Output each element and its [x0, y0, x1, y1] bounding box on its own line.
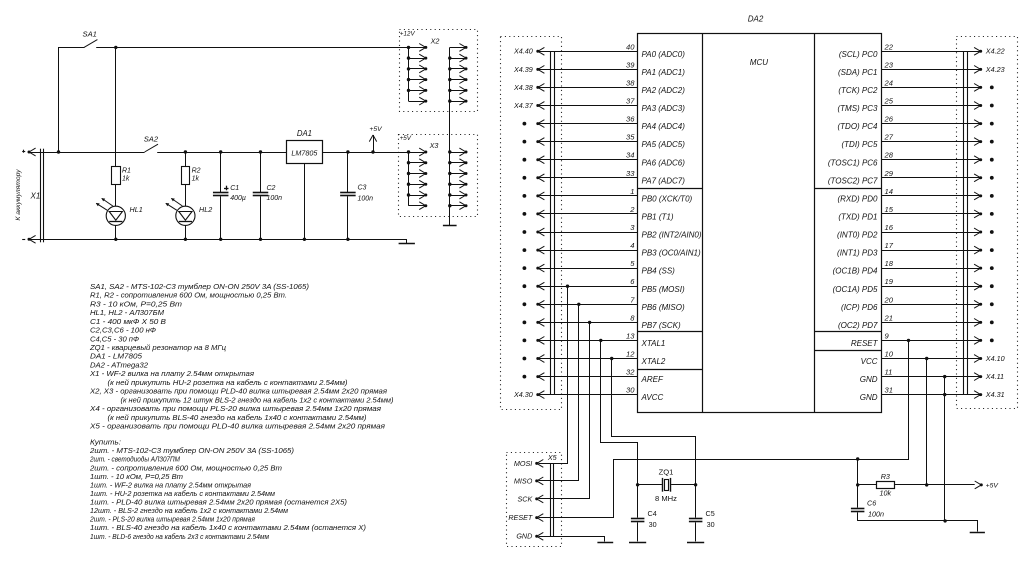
pin MOSI of X5 — [514, 459, 543, 468]
pin 37 PA3 (ADC3) wire to X4 — [536, 97, 685, 114]
pin X2b.6 — [450, 97, 468, 105]
svg-text:33: 33 — [626, 169, 635, 178]
pin RESET of X5 — [508, 513, 543, 522]
pin X3b.4 — [450, 180, 468, 188]
pin 9 RESET wire to X4 — [851, 331, 982, 348]
pin 5 PB4 (SS) wire to X4 — [536, 259, 675, 276]
junction X3a column row 2 — [407, 161, 410, 164]
pin 15 (TXD) PD1 wire to X4 — [838, 205, 982, 222]
junction bullet X4 right row 10 — [990, 230, 994, 234]
pin 8 PB7 (SCK) wire to X4 — [536, 313, 681, 330]
junction R3 on RESET wire — [856, 457, 859, 460]
pin X2b.3 — [450, 65, 468, 73]
svg-text:32: 32 — [626, 368, 635, 377]
svg-text:RESET: RESET — [508, 513, 533, 522]
svg-text:PA0 (ADC0): PA0 (ADC0) — [642, 50, 686, 59]
pin X3a.5 — [409, 191, 428, 199]
power symbol +5V right — [975, 481, 1000, 489]
svg-text:R3: R3 — [881, 472, 890, 481]
svg-text:400µ: 400µ — [230, 195, 246, 202]
svg-text:PB1 (T1): PB1 (T1) — [642, 213, 674, 222]
svg-text:HL1, HL2 - АЛ307БМ: HL1, HL2 - АЛ307БМ — [90, 308, 164, 317]
svg-text:R1: R1 — [122, 167, 131, 174]
svg-text:XTAL1: XTAL1 — [641, 339, 666, 348]
pin X3a.6 — [409, 202, 428, 210]
svg-text:PA1 (ADC1): PA1 (ADC1) — [642, 68, 686, 77]
wire DA1 ground pin — [304, 164, 306, 240]
svg-text:35: 35 — [626, 133, 635, 142]
wire SCK net — [539, 323, 590, 499]
MCU DA2 ATmega32 body — [637, 33, 882, 412]
pin X3b.2 — [450, 159, 468, 167]
junction PB6/MISO — [577, 303, 580, 306]
wire RESET net to X5 — [539, 341, 909, 518]
pin 4 PB3 (OC0/AIN1) wire to X4 — [536, 241, 701, 258]
svg-text:20: 20 — [884, 295, 894, 304]
svg-text:GND: GND — [516, 532, 532, 541]
svg-text:HL2: HL2 — [199, 205, 212, 214]
pin 31 GND wire to X4 — [860, 386, 982, 403]
pin 27 (TDI) PC5 wire to X4 — [842, 133, 983, 150]
pin 7 PB6 (MISO) wire to X4 — [536, 295, 685, 312]
svg-text:100n: 100n — [267, 195, 283, 202]
ground symbol at X5 — [597, 542, 613, 544]
pin 10 VCC wire to X4 — [861, 350, 983, 367]
svg-text:LM7805: LM7805 — [291, 148, 318, 157]
svg-text:PA3 (ADC3): PA3 (ADC3) — [642, 104, 686, 113]
svg-text:X1: X1 — [30, 191, 41, 200]
text block: shopping list — [89, 438, 366, 541]
svg-text:X3: X3 — [429, 141, 439, 150]
junction bullet X4 left row 7 — [523, 176, 527, 180]
junction bullet X4 right row 4 — [990, 122, 994, 126]
wire X3a column — [408, 152, 410, 206]
svg-text:C1 - 400 мкФ Х 50 В: C1 - 400 мкФ Х 50 В — [90, 317, 166, 326]
pin 36 PA4 (ADC4) wire to X4 — [536, 115, 685, 132]
svg-text:30: 30 — [707, 520, 715, 529]
LED HL2 — [165, 198, 212, 225]
pin 26 (TDO) PC4 wire to X4 — [838, 115, 983, 132]
svg-text:AREF: AREF — [641, 375, 664, 384]
svg-text:8 MHz: 8 MHz — [655, 494, 677, 503]
junction GND pin 11 net — [943, 375, 946, 378]
bus lines X4 left — [551, 51, 555, 394]
svg-text:X4.38: X4.38 — [513, 83, 533, 92]
svg-text:1k: 1k — [122, 176, 130, 183]
svg-text:X4.11: X4.11 — [985, 372, 1004, 381]
pin 14 (RXD) PD0 wire to X4 — [837, 187, 982, 204]
wire MISO net — [539, 305, 579, 481]
wire SA1 to X2 (+12V) — [96, 47, 408, 49]
wire XTAL2 to crystal — [612, 359, 696, 485]
svg-text:C5: C5 — [706, 509, 715, 518]
svg-text:17: 17 — [885, 241, 894, 250]
svg-text:1шт. - BLD-6 гнездо на кабель: 1шт. - BLD-6 гнездо на кабель 2х3 с конт… — [90, 532, 269, 541]
junction bullet X4 left row 13 — [523, 284, 527, 288]
junction X2a column row 1 — [407, 46, 410, 49]
junction bullet X4 right row 12 — [990, 266, 994, 270]
svg-text:SA2: SA2 — [144, 135, 159, 144]
wire R1 branch — [115, 47, 117, 239]
svg-text:+5V: +5V — [400, 135, 412, 142]
pin 35 PA5 (ADC5) wire to X4 — [536, 133, 685, 150]
junction X2b column row 6 — [448, 99, 451, 102]
pin GND of X5 — [516, 532, 543, 541]
junction on + rail at SA1 branch — [57, 150, 60, 153]
junction C2 on + rail — [259, 150, 262, 153]
junction GND on ground wire — [943, 519, 946, 522]
junction X2b column row 5 — [448, 89, 451, 92]
pin 17 (INT1) PD3 wire to X4 — [837, 241, 982, 258]
svg-text:18: 18 — [885, 259, 894, 268]
junction X3a column row 3 — [407, 172, 410, 175]
junction X3a column row 1 — [407, 150, 410, 153]
junction bullet X4 left row 8 — [523, 194, 527, 198]
svg-text:X2, X3 - организовать при помо: X2, X3 - организовать при помощи PLD-40 … — [89, 387, 387, 396]
junction RESET net — [907, 339, 910, 342]
ground symbol under C5 — [687, 542, 704, 544]
junction bullet X4 left row 18 — [523, 375, 527, 379]
bus lines X5 — [551, 463, 554, 536]
pin 20 (ICP) PD6 wire to X4 — [841, 295, 982, 312]
svg-text:SA1: SA1 — [83, 30, 97, 39]
pin 30 AVCC wire to X4 — [536, 386, 663, 403]
pin 34 PA6 (ADC6) wire to X4 — [536, 151, 685, 168]
svg-text:X5: X5 — [547, 453, 558, 462]
pin 13 XTAL1 wire to X4 — [536, 331, 665, 348]
svg-text:(к ней прикупить HU-2 розетка: (к ней прикупить HU-2 розетка на кабель … — [108, 378, 348, 387]
pin 12 XTAL2 wire to X4 — [536, 350, 666, 367]
svg-text:SCK: SCK — [518, 494, 534, 503]
svg-text:R1, R2 - сопротивления 600 Ом,: R1, R2 - сопротивления 600 Ом, мощностью… — [90, 291, 287, 300]
pin X3a.1 — [409, 148, 428, 156]
svg-text:100n: 100n — [868, 509, 884, 518]
pin 22 (SCL) PC0 wire to X4 — [839, 42, 982, 59]
svg-text:PB3 (OC0/AIN1): PB3 (OC0/AIN1) — [642, 249, 701, 258]
svg-text:1k: 1k — [192, 176, 200, 183]
svg-text:10k: 10k — [880, 488, 892, 497]
bus lines X4 right — [964, 51, 968, 394]
svg-text:(OC1B) PD4: (OC1B) PD4 — [833, 267, 878, 276]
svg-text:X4.30: X4.30 — [513, 390, 533, 399]
junction X3b column row 5 — [448, 193, 451, 196]
junction bullet X4 left row 9 — [523, 212, 527, 216]
svg-text:C2: C2 — [267, 185, 276, 192]
pin SCK of X5 — [518, 494, 544, 503]
svg-text:(TDI) PC5: (TDI) PC5 — [842, 140, 879, 149]
junction R1 branch on +12V wire — [114, 46, 117, 49]
svg-text:PA6 (ADC6): PA6 (ADC6) — [642, 158, 686, 167]
pin 21 (OC2) PD7 wire to X4 — [838, 313, 982, 330]
pin 28 (TOSC1) PC6 wire to X4 — [828, 151, 982, 168]
svg-text:DA2: DA2 — [748, 15, 764, 24]
wire MOSI net — [539, 287, 568, 464]
svg-text:25: 25 — [884, 97, 894, 106]
svg-text:(TDO) PC4: (TDO) PC4 — [838, 122, 879, 131]
wire +12V rail from X1 to DA1 — [44, 152, 145, 154]
pin X3b.5 — [450, 191, 468, 199]
resistor R3, 10k — [858, 472, 895, 497]
junction bullet X4 right row 5 — [990, 140, 994, 144]
svg-text:X5 - организовать при помощи P: X5 - организовать при помощи PLD-40 вилк… — [89, 422, 385, 431]
junction R3 left — [856, 483, 859, 486]
svg-text:29: 29 — [884, 169, 894, 178]
wire +5V rail from DA1 to X3 — [322, 152, 408, 154]
switch SA2 — [144, 135, 159, 152]
junction bullet X4 right row 9 — [990, 212, 994, 216]
junction X2b column row 2 — [448, 56, 451, 59]
svg-text:+5V: +5V — [986, 482, 1000, 489]
label "К аккумулятору" — [15, 169, 22, 221]
svg-text:+5V: +5V — [369, 126, 383, 133]
svg-text:ZQ1 - кварцевый резонатор на 8: ZQ1 - кварцевый резонатор на 8 МГц — [89, 343, 226, 352]
svg-text:C3: C3 — [358, 184, 367, 191]
junction DA1 gnd on - rail — [303, 238, 306, 241]
pin X3a.3 — [409, 170, 428, 178]
pin X3a.2 — [409, 159, 428, 167]
svg-text:DA1: DA1 — [297, 129, 312, 138]
pin 6 PB5 (MOSI) wire to X4 — [536, 277, 685, 294]
junction C3 on +5V rail — [346, 150, 349, 153]
ground symbol bottom right — [970, 532, 985, 534]
pin X2a.6 — [409, 97, 428, 105]
pin 25 (TMS) PC3 wire to X4 — [838, 97, 983, 114]
pin MISO of X5 — [514, 476, 543, 485]
svg-text:37: 37 — [626, 97, 635, 106]
junction bullet X4 left row 14 — [523, 302, 527, 306]
ground symbol under C4 — [629, 542, 646, 544]
junction R1/HL1 on - rail — [114, 238, 117, 241]
svg-text:MCU: MCU — [750, 58, 768, 67]
junction bullet X4 right row 16 — [990, 339, 994, 343]
svg-text:X4.31: X4.31 — [985, 390, 1005, 399]
pin 1 PB0 (XCK/T0) wire to X4 — [536, 187, 692, 204]
svg-text:PB6 (MISO): PB6 (MISO) — [642, 303, 685, 312]
svg-text:X4 - организовать при помощи P: X4 - организовать при помощи PLS-20 вилк… — [89, 404, 381, 413]
junction C2 on - rail — [259, 238, 262, 241]
junction PB5/MOSI — [566, 285, 569, 288]
junction X3a column row 4 — [407, 183, 410, 186]
ground symbol of - rail — [399, 243, 415, 245]
junction X2a column row 3 — [407, 67, 410, 70]
svg-text:30: 30 — [626, 386, 635, 395]
svg-text:PA5 (ADC5): PA5 (ADC5) — [642, 140, 686, 149]
switch SA1 — [83, 30, 98, 48]
svg-text:23: 23 — [884, 60, 894, 69]
pin 16 (INT0) PD2 wire to X4 — [837, 223, 982, 240]
svg-text:(SDA) PC1: (SDA) PC1 — [838, 68, 878, 77]
pin X3b.1 — [450, 148, 468, 156]
capacitor C4, 30 — [631, 485, 657, 542]
svg-text:36: 36 — [626, 115, 635, 124]
junction bullet X4 right row 15 — [990, 321, 994, 325]
svg-text:PB4 (SS): PB4 (SS) — [642, 267, 676, 276]
svg-text:(INT0) PD2: (INT0) PD2 — [837, 231, 878, 240]
connector X3 (dashed box) — [399, 135, 478, 217]
svg-text:(INT1) PD3: (INT1) PD3 — [837, 249, 878, 258]
svg-text:40: 40 — [626, 42, 635, 51]
svg-text:X4.22: X4.22 — [985, 47, 1005, 56]
pin X3b.6 — [450, 202, 468, 210]
svg-text:C2,C3,C6 - 100 нФ: C2,C3,C6 - 100 нФ — [90, 326, 156, 335]
svg-text:HL1: HL1 — [130, 205, 143, 214]
svg-text:+12V: +12V — [400, 30, 416, 37]
svg-text:GND: GND — [860, 393, 878, 402]
wire GND net down — [944, 377, 946, 521]
svg-text:VCC: VCC — [861, 357, 878, 366]
junction bullet X4 left row 5 — [523, 140, 527, 144]
svg-text:15: 15 — [885, 205, 894, 214]
svg-text:12: 12 — [626, 350, 635, 359]
svg-text:R3 - 10 кОм, P=0,25 Вт: R3 - 10 кОм, P=0,25 Вт — [90, 299, 182, 308]
junction C1 on - rail — [219, 238, 222, 241]
junction bullet X4 right row 7 — [990, 176, 994, 180]
svg-text:PA7 (ADC7): PA7 (ADC7) — [642, 176, 686, 185]
junction C3 on - rail — [346, 238, 349, 241]
svg-text:X4.39: X4.39 — [513, 65, 533, 74]
pin X2a.4 — [409, 76, 428, 84]
svg-text:19: 19 — [885, 277, 894, 286]
capacitor C5, 30 — [689, 485, 715, 542]
pin 19 (OC1A) PD5 wire to X4 — [833, 277, 983, 294]
pin X2a.2 — [409, 54, 428, 62]
svg-text:PA2 (ADC2): PA2 (ADC2) — [642, 86, 686, 95]
resistor R2, 1k — [182, 167, 201, 185]
wire X5 GND to ground — [539, 537, 605, 542]
svg-text:X4.40: X4.40 — [513, 47, 533, 56]
pin X2b.2 — [450, 54, 468, 62]
svg-text:(TMS) PC3: (TMS) PC3 — [838, 104, 879, 113]
junction bullet X4 right row 3 — [990, 104, 994, 108]
pin 3 PB2 (INT2/AIN0) wire to X4 — [536, 223, 702, 240]
svg-text:34: 34 — [626, 151, 634, 160]
pin - of X1 — [22, 235, 35, 243]
svg-text:XTAL2: XTAL2 — [641, 357, 666, 366]
svg-text:X1 - WF-2 вилка на плату 2.54м: X1 - WF-2 вилка на плату 2.54мм открытая — [89, 369, 254, 378]
svg-text:RESET: RESET — [851, 339, 879, 348]
junction X3b column row 3 — [448, 172, 451, 175]
svg-text:PA4 (ADC4): PA4 (ADC4) — [642, 122, 686, 131]
junction XTAL2 node — [610, 357, 613, 360]
ground symbol under X3 — [443, 225, 457, 227]
junction R2/HL2 on - rail — [184, 238, 187, 241]
svg-text:27: 27 — [884, 133, 894, 142]
wire XTAL1 to crystal — [601, 341, 638, 485]
capacitor C2, 100n — [253, 152, 282, 239]
pin X2b.1 — [450, 44, 468, 52]
wire - rail (battery minus) — [44, 240, 407, 244]
junction C1 on + rail — [219, 150, 222, 153]
svg-text:31: 31 — [885, 386, 893, 395]
junction bullet X4 left row 10 — [523, 230, 527, 234]
svg-text:22: 22 — [884, 42, 894, 51]
connector X4 right part (dashed box) — [957, 37, 1018, 409]
svg-text:PB7 (SCK): PB7 (SCK) — [642, 321, 681, 330]
svg-text:AVCC: AVCC — [641, 393, 664, 402]
pin 32 AREF wire to X4 — [536, 368, 664, 385]
junction X2a column row 5 — [407, 89, 410, 92]
svg-text:(ICP) PD6: (ICP) PD6 — [841, 303, 878, 312]
pin + of X1 — [22, 148, 35, 156]
junction bullet X4 right row 13 — [990, 284, 994, 288]
svg-text:DA2 - ATmega32: DA2 - ATmega32 — [90, 361, 148, 370]
junction X3b column row 6 — [448, 204, 451, 207]
svg-text:100n: 100n — [358, 195, 374, 202]
capacitor C6, 100n — [851, 485, 884, 521]
pin 39 PA1 (ADC1) wire to X4 — [536, 60, 685, 77]
svg-text:R2: R2 — [192, 167, 201, 174]
wire X2 right column to X3 and ground — [449, 47, 451, 225]
junction XTAL1 node — [599, 339, 602, 342]
pin X2b.5 — [450, 87, 468, 95]
svg-text:1: 1 — [630, 187, 634, 196]
junction X3b column row 1 — [448, 150, 451, 153]
svg-text:14: 14 — [885, 187, 893, 196]
svg-text:38: 38 — [626, 78, 635, 87]
svg-text:30: 30 — [649, 520, 657, 529]
svg-text:4: 4 — [630, 241, 634, 250]
power symbol +5V — [369, 126, 383, 152]
pin X3b.3 — [450, 170, 468, 178]
connector X4 left part (dashed box) — [501, 37, 562, 410]
svg-text:26: 26 — [884, 115, 894, 124]
crystal ZQ1 8 MHz — [638, 467, 696, 503]
svg-text:X4.10: X4.10 — [985, 354, 1005, 363]
pin 29 (TOSC2) PC7 wire to X4 — [828, 169, 982, 186]
junction X2b column row 4 — [448, 78, 451, 81]
resistor R1, 1k — [112, 167, 132, 185]
pin X2a.3 — [409, 65, 428, 73]
svg-text:(OC1A) PD5: (OC1A) PD5 — [833, 285, 878, 294]
svg-text:(SCL) PC0: (SCL) PC0 — [839, 50, 878, 59]
junction X3b column row 4 — [448, 183, 451, 186]
pin 40 PA0 (ADC0) wire to X4 — [536, 42, 685, 59]
svg-text:PB0 (XCK/T0): PB0 (XCK/T0) — [642, 195, 693, 204]
pin X2a.5 — [409, 87, 428, 95]
junction PB7/SCK — [588, 321, 591, 324]
svg-text:2: 2 — [629, 205, 635, 214]
wire C6/GND to ground — [858, 521, 978, 532]
svg-text:(OC2) PD7: (OC2) PD7 — [838, 321, 878, 330]
text block: component list — [89, 282, 394, 431]
junction X3b column row 2 — [448, 161, 451, 164]
svg-text:X4.37: X4.37 — [513, 101, 534, 110]
pin 33 PA7 (ADC7) wire to X4 — [536, 169, 685, 186]
svg-text:C4,C5 - 30 пФ: C4,C5 - 30 пФ — [90, 334, 139, 343]
junction X2a column row 4 — [407, 78, 410, 81]
junction bullet X4 left row 12 — [523, 266, 527, 270]
svg-text:(RXD) PD0: (RXD) PD0 — [837, 195, 878, 204]
junction bullet X4 left row 6 — [523, 158, 527, 162]
pin 38 PA2 (ADC2) wire to X4 — [536, 78, 685, 95]
wire R3 to +5V — [894, 484, 974, 486]
wire X2a column — [408, 47, 410, 101]
junction bullet X4 right row 2 — [990, 86, 994, 90]
pin 24 (TCK) PC2 wire to X4 — [838, 78, 982, 95]
svg-text:(TOSC2) PC7: (TOSC2) PC7 — [828, 176, 878, 185]
svg-text:24: 24 — [884, 78, 893, 87]
svg-text:C1: C1 — [230, 185, 239, 192]
wire R2 branch — [185, 152, 187, 239]
connector X5 (dashed box) — [507, 453, 562, 547]
junction VCC on +5V wire — [925, 483, 928, 486]
capacitor C1, 400u polarized — [213, 152, 246, 239]
voltage regulator DA1 LM7805 — [287, 129, 323, 163]
junction GND pin 31 tie — [943, 393, 946, 396]
svg-text:13: 13 — [626, 331, 635, 340]
svg-text:11: 11 — [885, 368, 893, 377]
wire VCC net to +5V — [926, 359, 928, 485]
